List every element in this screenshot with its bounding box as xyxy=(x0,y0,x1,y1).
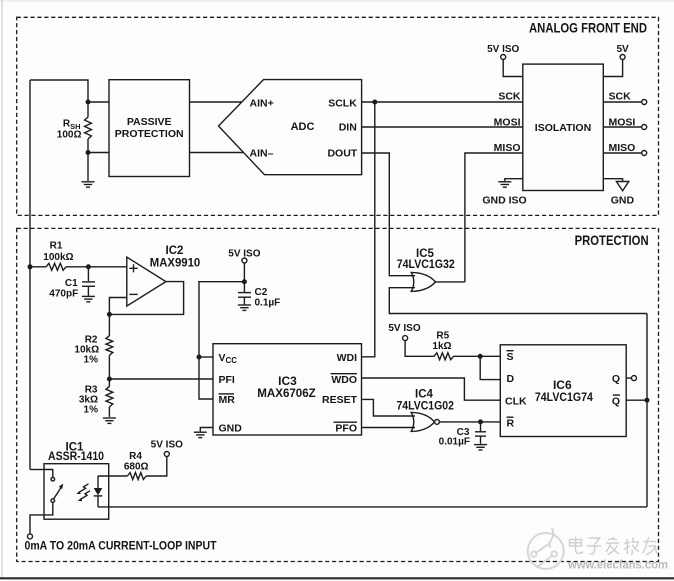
wire RSH to ground stub xyxy=(87,153,89,182)
wire MISO down to OR gate output xyxy=(465,153,523,282)
svg-text:IC2: IC2 xyxy=(166,245,184,257)
NOR output bubble xyxy=(435,420,440,425)
wire DOUT down to OR gate input xyxy=(362,153,415,276)
svg-text:680Ω: 680Ω xyxy=(124,462,149,473)
watermark text fa xyxy=(606,537,620,555)
wire Q-bar vertical feedback xyxy=(646,314,648,507)
overline S xyxy=(507,350,514,352)
svg-text:74LVC1G74: 74LVC1G74 xyxy=(535,390,593,404)
page left border xyxy=(1,0,3,578)
svg-text:MOSI: MOSI xyxy=(494,117,521,129)
svg-text:ANALOG FRONT END: ANALOG FRONT END xyxy=(529,20,647,36)
svg-text:Q: Q xyxy=(612,373,620,385)
svg-text:R5: R5 xyxy=(436,331,449,342)
wire RSH top to passive protection xyxy=(88,101,109,103)
page top border xyxy=(0,0,674,2)
svg-text:IC4: IC4 xyxy=(415,389,434,401)
svg-text:470pF: 470pF xyxy=(49,289,78,300)
wire RSH bottom to passive protection xyxy=(88,152,109,154)
svg-text:5V ISO: 5V ISO xyxy=(487,44,519,55)
svg-text:1kΩ: 1kΩ xyxy=(432,341,451,352)
wire top wire to RSH node xyxy=(30,80,88,102)
junction VCC tap xyxy=(197,355,202,360)
wire NOR output to R input xyxy=(439,421,500,423)
svg-text:www.elecfans.com: www.elecfans.com xyxy=(567,560,668,572)
op-amp - sign xyxy=(129,293,137,295)
wire op-amp output feedback xyxy=(109,282,183,315)
svg-text:1%: 1% xyxy=(84,404,99,415)
svg-text:PFI: PFI xyxy=(219,374,235,386)
watermark text dian xyxy=(570,537,584,554)
wire VCC wire xyxy=(199,356,213,358)
op-amp U-IC2 triangle xyxy=(127,257,166,306)
terminal 5V ISO at R4 xyxy=(164,452,169,457)
svg-text:ASSR-1410: ASSR-1410 xyxy=(48,451,104,463)
ground below C3 xyxy=(474,445,487,450)
svg-text:SCLK: SCLK xyxy=(328,97,357,109)
ground IC3 GND xyxy=(194,432,207,437)
junction C2 node xyxy=(242,279,247,284)
wire 5V ISO to VCC/MR rail xyxy=(199,282,244,399)
optocoupler U-IC1 ASSR-1410 box xyxy=(44,464,109,520)
terminal 5V ISO left xyxy=(501,55,506,60)
ground GND ISO xyxy=(498,182,511,187)
svg-text:MAX6706Z: MAX6706Z xyxy=(257,386,316,400)
wire PFI wire xyxy=(109,378,213,380)
junction current loop tap for R1 xyxy=(28,264,33,269)
junction op-amp + input node xyxy=(86,264,91,269)
terminal MISO xyxy=(642,151,647,156)
block U-IC3 MAX6706Z xyxy=(213,344,362,435)
wire WDO to CLK xyxy=(362,378,501,400)
opto switch arm with arrow xyxy=(54,488,61,499)
svg-text:GND ISO: GND ISO xyxy=(482,194,526,206)
svg-text:PASSIVE: PASSIVE xyxy=(127,116,172,128)
svg-text:MR: MR xyxy=(219,394,236,406)
opto LED xyxy=(97,476,99,488)
ground below R3 xyxy=(103,418,116,423)
terminal 5V ISO at C2 xyxy=(242,258,247,263)
wire Q output stub xyxy=(626,377,631,379)
junction PFI divider node xyxy=(107,377,112,382)
block U-IC6 74LVC1G74 xyxy=(500,345,626,437)
wire GND ISO stub xyxy=(505,179,523,181)
OR gate U-IC5 74LVC1G32 xyxy=(411,272,435,291)
wire OR output to MISO xyxy=(436,281,465,283)
terminal SCK xyxy=(642,100,647,105)
svg-text:DIN: DIN xyxy=(339,121,357,133)
junction SCLK junction xyxy=(372,100,377,105)
junction RSH top node xyxy=(86,100,91,105)
capacitor C3 xyxy=(475,422,486,444)
svg-text:74LVC1G02: 74LVC1G02 xyxy=(396,401,454,413)
ground below C1 xyxy=(82,296,95,301)
wire OR input feedback from /Q xyxy=(389,288,647,314)
resistor R4 xyxy=(127,457,166,480)
svg-text:R1: R1 xyxy=(50,240,63,251)
svg-text:ADC: ADC xyxy=(291,121,315,133)
ground below RSH xyxy=(82,182,95,187)
svg-text:R: R xyxy=(507,417,515,429)
overline PFO xyxy=(334,421,358,423)
svg-text:SCK: SCK xyxy=(609,91,632,103)
svg-text:CLK: CLK xyxy=(505,395,527,407)
wire GND stub IC3 xyxy=(200,428,213,432)
junction Q-bar node xyxy=(645,398,650,403)
svg-text:MISO: MISO xyxy=(494,142,521,154)
wire DIN to MOSI wire xyxy=(362,126,523,128)
svg-text:WDI: WDI xyxy=(337,352,357,364)
op-amp + sign xyxy=(129,264,137,272)
svg-text:PFO: PFO xyxy=(335,422,357,434)
block ISOLATION xyxy=(523,64,604,190)
page bottom rule xyxy=(0,577,674,579)
svg-text:5V: 5V xyxy=(616,44,629,55)
wire WDI to SCLK xyxy=(362,102,375,357)
svg-text:1%: 1% xyxy=(84,354,99,365)
overline Q-bar xyxy=(613,394,620,396)
wire GND stub xyxy=(603,179,622,181)
svg-text:0.01µF: 0.01µF xyxy=(439,437,470,448)
svg-text:GND: GND xyxy=(219,422,243,434)
wire AIN+ wire xyxy=(190,101,243,103)
svg-text:AIN–: AIN– xyxy=(250,148,274,160)
wire SCK output wire xyxy=(603,101,641,103)
svg-text:AIN+: AIN+ xyxy=(250,97,274,109)
watermark text you xyxy=(643,537,658,555)
overline MR xyxy=(219,393,235,395)
terminal current-loop input xyxy=(28,534,33,539)
block PASSIVE PROTECTION xyxy=(109,80,190,177)
wire 5V ISO down xyxy=(243,263,245,282)
svg-text:PROTECTION: PROTECTION xyxy=(115,128,184,140)
junction C3 node xyxy=(478,419,483,424)
wire MOSI output wire xyxy=(603,126,641,128)
wire LED cathode long wire to Q-bar xyxy=(98,506,647,508)
svg-text:0mA TO 20mA CURRENT-LOOP INPUT: 0mA TO 20mA CURRENT-LOOP INPUT xyxy=(25,539,218,553)
svg-text:100Ω: 100Ω xyxy=(57,129,82,140)
watermark text zi xyxy=(587,538,601,554)
svg-text:5V ISO: 5V ISO xyxy=(388,323,420,334)
resistor R1 xyxy=(30,263,88,270)
wire 5V ISO stub xyxy=(503,60,523,77)
junction RSH bottom node xyxy=(86,150,91,155)
svg-text:5V ISO: 5V ISO xyxy=(151,440,183,451)
svg-text:D: D xyxy=(507,373,515,385)
dashed box ANALOG FRONT END xyxy=(17,17,659,215)
terminal MOSI xyxy=(642,125,647,130)
junction S/D node xyxy=(478,354,483,359)
svg-text:74LVC1G32: 74LVC1G32 xyxy=(397,259,455,271)
overline WDO xyxy=(331,373,358,375)
svg-text:WDO: WDO xyxy=(331,374,357,386)
wire SCLK wire xyxy=(362,101,523,103)
wire RESET to NOR input xyxy=(362,399,416,416)
wire loop to opto xyxy=(30,469,44,471)
wire MISO output wire xyxy=(603,152,641,154)
svg-text:RESET: RESET xyxy=(322,394,358,406)
wire AIN- wire xyxy=(190,152,245,154)
junction feedback node xyxy=(107,312,112,317)
terminal 5V right xyxy=(620,55,625,60)
svg-text:DOUT: DOUT xyxy=(327,148,357,160)
wire opto bottom lead to input terminal xyxy=(30,502,53,533)
resistor R3 xyxy=(106,379,113,417)
wire node to D input xyxy=(480,356,500,379)
svg-text:5V ISO: 5V ISO xyxy=(228,249,260,260)
wire current-loop left vertical xyxy=(29,80,31,470)
svg-text:ISOLATION: ISOLATION xyxy=(535,122,591,134)
wire 5V stub xyxy=(603,60,622,77)
wire to op-amp + input xyxy=(88,266,126,268)
terminal 5V ISO at R5 xyxy=(403,336,408,341)
resistor RSH xyxy=(85,102,92,153)
svg-text:PROTECTION: PROTECTION xyxy=(575,232,649,248)
watermark text shao xyxy=(624,538,639,555)
svg-text:GND: GND xyxy=(611,194,635,206)
svg-text:MAX9910: MAX9910 xyxy=(150,257,201,269)
capacitor C2 xyxy=(238,282,251,305)
opto light arrows xyxy=(79,484,91,500)
svg-text:S: S xyxy=(507,351,514,363)
svg-text:0.1µF: 0.1µF xyxy=(255,298,281,309)
svg-text:Q: Q xyxy=(612,395,620,407)
svg-text:C1: C1 xyxy=(65,278,78,289)
ground below C2 xyxy=(238,305,251,310)
ADC U-AFE pentagon xyxy=(219,80,362,175)
resistor R2 xyxy=(106,314,113,379)
svg-text:100kΩ: 100kΩ xyxy=(43,252,73,263)
svg-text:SCK: SCK xyxy=(498,91,521,103)
wire feedback to - input xyxy=(109,298,126,315)
opto switch contact top xyxy=(51,477,55,481)
ground GND (open triangle) xyxy=(616,182,628,191)
NOR gate U-IC4 74LVC1G02 xyxy=(411,412,434,431)
opto switch contact bottom xyxy=(51,499,55,503)
wire opto switch top lead xyxy=(44,470,53,478)
watermark logo circle xyxy=(528,528,564,569)
wire PFO to NOR input xyxy=(362,427,416,429)
capacitor C1 xyxy=(82,267,95,296)
dashed box PROTECTION xyxy=(17,228,659,561)
terminal Q output xyxy=(632,376,637,381)
resistor R5 xyxy=(405,341,500,360)
wire LED anode to R4 xyxy=(98,475,127,477)
svg-text:R4: R4 xyxy=(129,451,142,462)
overline R xyxy=(507,416,514,418)
wire Q-bar output xyxy=(626,399,647,401)
